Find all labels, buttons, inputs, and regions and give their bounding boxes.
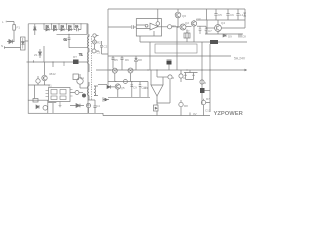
- svg-text:R3: R3: [87, 103, 91, 107]
- svg-text:F1: F1: [17, 26, 21, 30]
- svg-text:R6: R6: [125, 58, 129, 62]
- svg-text:C4: C4: [96, 104, 100, 108]
- svg-text:YZPOWER: YZPOWER: [214, 111, 244, 117]
- svg-text:Q4: Q4: [221, 21, 225, 25]
- svg-text:C0: C0: [75, 25, 79, 28]
- svg-text:C1: C1: [64, 38, 68, 42]
- svg-text:RT: RT: [73, 55, 77, 59]
- svg-text:R5: R5: [114, 58, 118, 62]
- svg-text:R9: R9: [172, 24, 176, 28]
- svg-text:Q1: Q1: [80, 76, 84, 80]
- svg-text:U1: U1: [48, 84, 52, 88]
- svg-text:R7: R7: [206, 97, 210, 101]
- svg-text:D2: D2: [53, 25, 57, 28]
- svg-text:D4: D4: [68, 25, 72, 28]
- svg-text:Q2: Q2: [185, 21, 189, 25]
- svg-text:C8: C8: [242, 35, 246, 39]
- svg-text:L: L: [2, 20, 4, 24]
- svg-text:R8: R8: [184, 104, 188, 108]
- svg-text:C2: C2: [104, 45, 108, 49]
- svg-text:C5: C5: [218, 13, 222, 17]
- svg-text:R: R: [172, 76, 175, 80]
- svg-text:Z1: Z1: [34, 53, 38, 57]
- svg-text:0V: 0V: [193, 112, 197, 116]
- svg-text:XT: XT: [186, 30, 190, 34]
- svg-text:C10: C10: [141, 86, 147, 90]
- svg-text:3842: 3842: [49, 72, 56, 76]
- svg-text:C6: C6: [230, 13, 234, 17]
- svg-text:D3: D3: [61, 25, 65, 28]
- svg-text:Q5: Q5: [121, 86, 125, 90]
- svg-text:C7: C7: [208, 29, 212, 33]
- svg-text:C3: C3: [97, 51, 101, 55]
- svg-text:T1: T1: [79, 53, 83, 57]
- svg-text:Q3: Q3: [197, 17, 201, 21]
- svg-text:R2: R2: [97, 41, 101, 45]
- svg-text:Q6: Q6: [182, 14, 186, 18]
- svg-text:D: D: [204, 81, 207, 85]
- svg-text:C9: C9: [133, 86, 137, 90]
- svg-text:D9: D9: [228, 35, 232, 39]
- svg-text:D8: D8: [138, 58, 142, 62]
- svg-text:5A,24V: 5A,24V: [234, 57, 246, 61]
- svg-text:D1: D1: [46, 25, 50, 28]
- svg-text:N: N: [1, 44, 3, 48]
- svg-text:C12: C12: [205, 109, 211, 113]
- svg-text:L1: L1: [240, 13, 244, 17]
